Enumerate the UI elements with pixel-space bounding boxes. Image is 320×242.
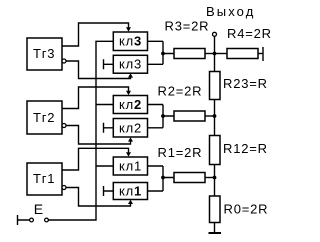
wire Tg1 inverse output to кл1 lower control xyxy=(66,188,131,207)
svg-text:кл1: кл1 xyxy=(119,184,142,199)
svg-text:Тг3: Тг3 xyxy=(33,46,55,61)
arrow into кл2 upper xyxy=(126,91,131,95)
svg-text:R0=2R: R0=2R xyxy=(224,202,269,217)
wire output to node 3 xyxy=(214,36,216,71)
svg-text:кл1: кл1 xyxy=(119,159,142,174)
inversion bubble Tg2 xyxy=(62,124,66,128)
svg-text:кл2: кл2 xyxy=(119,121,142,136)
svg-text:Выход: Выход xyxy=(206,4,255,19)
right terminal bar xyxy=(262,47,264,61)
trigger Tg3 xyxy=(27,38,62,70)
input terminal bar кл3 lower xyxy=(104,59,114,69)
arrow into кл2 lower xyxy=(128,137,133,141)
wire R12 to node 1 xyxy=(214,165,216,197)
junction dot rail node 2 xyxy=(213,114,217,118)
wire R2 to rail xyxy=(205,115,215,117)
input terminal bar кл1 lower xyxy=(104,186,114,196)
E switch contact circle left xyxy=(30,218,34,222)
resistor R12 xyxy=(210,136,221,165)
arrow into кл3 lower xyxy=(128,73,133,77)
resistor R0 xyxy=(210,196,221,223)
resistor R23 xyxy=(210,72,221,100)
wire R3 to rail xyxy=(205,53,215,55)
inversion bubble Tg1 xyxy=(62,186,66,190)
switch кл3 upper xyxy=(113,32,147,51)
wire R23 to node 2 xyxy=(214,100,216,136)
arrow into кл1 lower xyxy=(128,200,133,204)
switch кл3 lower xyxy=(113,55,147,73)
input terminal bar кл2 lower xyxy=(104,123,114,133)
svg-text:E: E xyxy=(34,201,43,217)
switch кл1 lower xyxy=(113,183,147,200)
node 3 connector (кл3 outputs joined) xyxy=(148,41,175,64)
E terminal bar xyxy=(18,215,30,225)
junction dot rail node 1 xyxy=(213,176,217,180)
svg-text:R1=2R: R1=2R xyxy=(158,145,203,160)
node 1 connector (кл1 outputs joined) xyxy=(148,166,175,191)
svg-text:кл3: кл3 xyxy=(119,57,142,72)
svg-text:Тг2: Тг2 xyxy=(33,110,55,125)
inversion bubble Tg3 xyxy=(62,59,66,63)
switch кл2 lower xyxy=(113,119,147,138)
wire Tg1 direct output to кл1 upper control xyxy=(62,148,129,170)
E supply bus (vertical) with branches to upper switches xyxy=(49,41,114,220)
switch кл2 upper xyxy=(113,96,147,114)
trigger Tg2 xyxy=(27,101,62,134)
svg-text:R3=2R: R3=2R xyxy=(165,19,210,34)
arrow into кл1 upper xyxy=(126,152,131,156)
svg-text:кл3: кл3 xyxy=(119,34,142,49)
output terminal circle xyxy=(213,32,217,36)
svg-text:R2=2R: R2=2R xyxy=(158,84,203,99)
wire node 3 to R4 xyxy=(215,53,228,55)
svg-text:R4=2R: R4=2R xyxy=(227,26,272,41)
wire Tg3 direct output to кл3 upper control xyxy=(62,23,129,46)
resistor R2 xyxy=(174,111,205,121)
resistor R4 xyxy=(227,49,258,59)
resistor R3 xyxy=(174,49,205,59)
wire R1 to rail xyxy=(205,177,215,179)
wire Tg2 direct output to кл2 upper control xyxy=(62,87,129,109)
svg-text:кл2: кл2 xyxy=(119,97,142,112)
junction dot rail node 3 xyxy=(213,52,217,56)
wire R0 to ground xyxy=(214,223,216,233)
junction dot node 1 xyxy=(161,176,165,180)
wire Tg3 inverse output to кл3 lower control xyxy=(66,61,131,79)
svg-text:Тг1: Тг1 xyxy=(33,171,55,186)
arrow into кл3 upper xyxy=(126,27,131,31)
node 2 connector (кл2 outputs joined) xyxy=(148,105,175,128)
resistor R1 xyxy=(174,173,205,183)
switch кл1 upper xyxy=(113,157,147,175)
wire R4 to right terminal xyxy=(258,53,263,55)
svg-text:R23=R: R23=R xyxy=(223,76,268,91)
trigger Tg1 xyxy=(27,163,62,195)
junction dot node 3 xyxy=(161,52,165,56)
junction dot node 2 xyxy=(161,114,165,118)
E switch contact circle right xyxy=(45,218,49,222)
svg-text:R12=R: R12=R xyxy=(223,141,268,156)
wire Tg2 inverse output to кл2 lower control xyxy=(66,126,131,145)
ground xyxy=(209,232,222,234)
